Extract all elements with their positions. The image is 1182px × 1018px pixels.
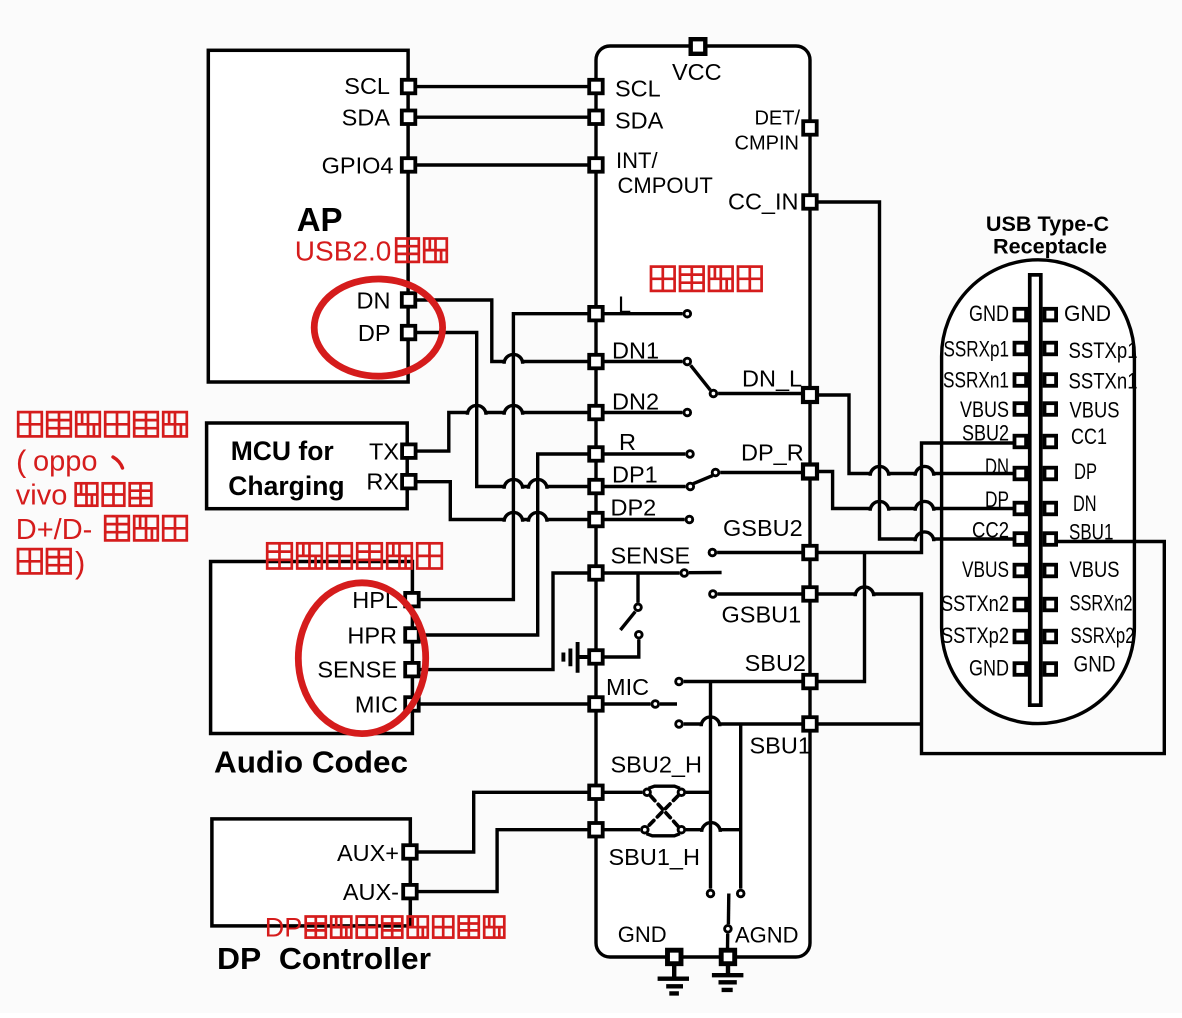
contact AGND switch left bbox=[707, 890, 714, 897]
wire SCL AP to U1 bbox=[409, 85, 596, 88]
contact DN2 bbox=[684, 409, 691, 416]
AP block bbox=[208, 50, 408, 382]
wire CC_IN to CC2 pad bbox=[810, 202, 1014, 541]
svg-text:DP: DP bbox=[265, 913, 303, 943]
svg-text:SSTXp2: SSTXp2 bbox=[941, 623, 1009, 648]
contact DP1 bbox=[687, 483, 694, 490]
pin AGND U1 bbox=[721, 950, 735, 964]
pin VCC U1 bbox=[691, 39, 706, 54]
wire DP1 pin to contact bbox=[596, 485, 686, 488]
svg-text:RX: RX bbox=[366, 469, 399, 495]
svg-text:DN1: DN1 bbox=[612, 338, 659, 364]
pin DP2 U1 bbox=[589, 513, 603, 527]
svg-text:R: R bbox=[619, 429, 636, 455]
svg-text:DN_L: DN_L bbox=[742, 366, 802, 392]
svg-text:DP: DP bbox=[358, 320, 391, 346]
svg-text:SSRXn1: SSRXn1 bbox=[943, 368, 1009, 393]
ground bias symbol bbox=[563, 642, 589, 673]
pin L U1 bbox=[589, 307, 603, 321]
ground symbol AGND bbox=[712, 964, 744, 990]
svg-text:GND: GND bbox=[969, 656, 1009, 681]
pin SDA AP bbox=[402, 111, 416, 125]
pad right CC1 (5R) bbox=[1045, 436, 1057, 448]
switch blade DP_R to DP1 bbox=[693, 476, 712, 484]
contact GSBU2 bbox=[709, 549, 716, 556]
pin SBU2 U1 bbox=[803, 675, 817, 689]
svg-text:Charging: Charging bbox=[228, 471, 344, 501]
svg-text:SBU2: SBU2 bbox=[745, 650, 806, 676]
svg-text:L: L bbox=[618, 292, 631, 318]
pin DP_R U1 bbox=[803, 465, 817, 479]
red note line1 chongdian xieyi xindao bbox=[18, 412, 187, 436]
svg-text:VBUS: VBUS bbox=[1070, 557, 1120, 582]
svg-text:SSRXp1: SSRXp1 bbox=[944, 337, 1010, 362]
wire SBU1_H contact to drop bbox=[686, 823, 741, 832]
pin DP1 U1 bbox=[589, 480, 603, 494]
pin HPL codec bbox=[405, 593, 419, 607]
svg-text:AUX-: AUX- bbox=[343, 879, 399, 905]
pad right SSTXp1 (2R) bbox=[1045, 343, 1057, 355]
svg-text:Receptacle: Receptacle bbox=[993, 234, 1107, 259]
pad right SSRXn2 (10R) bbox=[1045, 599, 1057, 611]
receptacle tongue bbox=[1030, 275, 1041, 705]
pin CC_IN U1 bbox=[803, 195, 817, 209]
contact ground switch top bbox=[635, 604, 642, 611]
wire AGND common to pin bbox=[726, 934, 730, 951]
svg-text:VBUS: VBUS bbox=[1070, 398, 1120, 423]
contact DN_L common bbox=[710, 390, 717, 397]
svg-text:DN2: DN2 bbox=[612, 389, 659, 415]
svg-text:CMPOUT: CMPOUT bbox=[618, 173, 713, 198]
wire SBU2_H contact to drop bbox=[686, 791, 711, 794]
wire GSBU2 to SBU2 pad bbox=[810, 443, 1014, 553]
ground symbol GND bbox=[658, 964, 689, 993]
svg-text:INT/: INT/ bbox=[616, 148, 658, 173]
pad left VBUS (9L) bbox=[1015, 565, 1027, 577]
wire AUX- to SBU1_H bbox=[410, 830, 596, 892]
crossbar dashed X bbox=[648, 796, 678, 826]
pin INT/CMPOUT U1 bbox=[589, 158, 603, 172]
Audio Codec block bbox=[211, 562, 413, 734]
red ellipse around headphone pins bbox=[298, 583, 425, 734]
svg-text:Audio Codec: Audio Codec bbox=[214, 746, 408, 780]
pin AUX- DP controller bbox=[403, 885, 417, 899]
contact DP_R common bbox=[712, 469, 719, 476]
contact R bbox=[687, 451, 694, 458]
svg-text:CC_IN: CC_IN bbox=[728, 189, 799, 215]
pin HPR codec bbox=[405, 628, 419, 642]
pin SCL AP bbox=[402, 80, 416, 94]
pin RX MCU bbox=[402, 475, 416, 489]
svg-text:SBU2_H: SBU2_H bbox=[611, 752, 702, 778]
wire DN_L to DN pad bbox=[810, 395, 1014, 476]
pin TX MCU bbox=[402, 444, 416, 458]
wire SBU2_H pin to contact bbox=[596, 791, 642, 794]
svg-text:CC1: CC1 bbox=[1071, 424, 1107, 449]
pad left SSRXp1 (2L) bbox=[1015, 343, 1027, 355]
contact SENSE common bbox=[681, 570, 688, 577]
wire SENSE codec to U1 bbox=[412, 573, 596, 670]
pin DN2 U1 bbox=[589, 406, 603, 420]
wire R pin to contact bbox=[596, 452, 685, 455]
wire GPIO4 to INT/CMPOUT bbox=[409, 163, 596, 166]
svg-text:SSTXn1: SSTXn1 bbox=[1069, 369, 1138, 394]
wire DP_R to DP pad bbox=[810, 472, 1014, 511]
svg-text:SBU1: SBU1 bbox=[750, 733, 811, 759]
red label USB2.0 xindao bbox=[396, 239, 447, 262]
pin MIC codec bbox=[405, 697, 419, 711]
svg-text:GPIO4: GPIO4 bbox=[322, 153, 394, 179]
pad right VBUS (9R) bbox=[1045, 565, 1057, 577]
wire SBU1_H pin to contact bbox=[596, 828, 640, 831]
wire R to HPR bbox=[412, 454, 596, 635]
pin ground bias U1 bbox=[589, 650, 603, 664]
svg-text:AP: AP bbox=[297, 201, 343, 238]
contact DP2 bbox=[686, 516, 693, 523]
svg-text:D+/D-: D+/D- bbox=[16, 514, 93, 546]
pad left SSRXn1 (3L) bbox=[1015, 374, 1027, 386]
wire SBU1 contact to pin bbox=[684, 717, 802, 726]
svg-text:GSBU1: GSBU1 bbox=[722, 602, 802, 628]
contact SBU2 bbox=[676, 678, 683, 685]
svg-text:AUX+: AUX+ bbox=[337, 840, 399, 866]
wire AUX+ to SBU2_H bbox=[410, 792, 596, 852]
contact GSBU1 bbox=[710, 591, 717, 598]
switch blade SENSE bbox=[689, 571, 722, 575]
pad right VBUS (4R) bbox=[1045, 403, 1057, 415]
svg-text:SCL: SCL bbox=[615, 76, 661, 102]
wire DP AP to DP1 bbox=[409, 333, 596, 489]
contact L bbox=[684, 310, 691, 317]
wire GSBU1 to loop bbox=[810, 542, 1164, 754]
pin SBU1_H U1 bbox=[589, 823, 603, 837]
contact SBU1_H left bbox=[642, 826, 649, 833]
pin GSBU2 U1 bbox=[803, 546, 817, 560]
switch blade ground bbox=[620, 612, 635, 630]
wire L to HPL bbox=[412, 314, 596, 600]
pad right SSTXn1 (3R) bbox=[1045, 374, 1057, 386]
red note line2 dun mark bbox=[113, 457, 123, 468]
svg-text:SBU2: SBU2 bbox=[962, 421, 1009, 446]
pin SCL U1 bbox=[589, 80, 603, 94]
wire DP_R common bbox=[720, 471, 802, 474]
wire L pin to contact bbox=[596, 312, 683, 315]
red ellipse around DN/DP bbox=[314, 279, 442, 376]
wire DP2 pin to contact bbox=[596, 518, 685, 521]
svg-text:GND: GND bbox=[1064, 301, 1111, 326]
pad left GND (12L) bbox=[1015, 663, 1027, 675]
svg-text:VBUS: VBUS bbox=[960, 397, 1009, 422]
contact AGND common bbox=[725, 926, 732, 933]
wire SENSE to ground switch bbox=[636, 573, 639, 603]
switch blade AGND bbox=[727, 894, 731, 925]
svg-text:DET/: DET/ bbox=[754, 108, 800, 130]
svg-text:DN: DN bbox=[357, 288, 391, 314]
contact DN1 bbox=[684, 358, 691, 365]
pin SDA U1 bbox=[589, 111, 603, 125]
pad right DN (7R) bbox=[1045, 503, 1057, 515]
svg-text:SENSE: SENSE bbox=[317, 657, 397, 683]
svg-text:SDA: SDA bbox=[615, 108, 664, 134]
svg-text:DP1: DP1 bbox=[612, 462, 658, 488]
wire SBU2 contact to pin bbox=[684, 680, 802, 683]
analog switch IC U1 body bbox=[596, 46, 810, 957]
svg-text:GND: GND bbox=[969, 301, 1009, 326]
svg-text:GND: GND bbox=[1074, 652, 1116, 677]
pad right SSRXp2 (11R) bbox=[1045, 631, 1057, 643]
DP Controller block bbox=[212, 819, 410, 926]
svg-text:SBU1_H: SBU1_H bbox=[609, 844, 700, 870]
pad left SBU2 (5L) bbox=[1015, 436, 1027, 448]
svg-text:): ) bbox=[75, 545, 85, 580]
pin SBU2_H U1 bbox=[589, 786, 603, 800]
wire DN AP to DN1 bbox=[409, 300, 596, 364]
wire DN1 pin to contact bbox=[596, 360, 683, 363]
svg-text:DP: DP bbox=[985, 487, 1009, 512]
svg-text:USB Type-C: USB Type-C bbox=[986, 211, 1109, 236]
wire TX to DN2 bbox=[409, 405, 596, 451]
wire MIC pin to contact bbox=[596, 702, 651, 705]
red label moni erji xindao (headphone channel) bbox=[267, 543, 442, 568]
svg-text:CMPIN: CMPIN bbox=[735, 133, 799, 155]
pad left SSTXp2 (11L) bbox=[1015, 631, 1027, 643]
svg-text:DP2: DP2 bbox=[611, 495, 657, 521]
svg-text:DN: DN bbox=[1073, 491, 1097, 516]
svg-text:oppo: oppo bbox=[33, 446, 98, 478]
MCU for Charging block bbox=[207, 423, 408, 509]
svg-text:SDA: SDA bbox=[342, 105, 391, 131]
svg-text:VCC: VCC bbox=[672, 59, 722, 85]
pad right GND (1R) bbox=[1045, 309, 1057, 321]
pad left DN (6L) bbox=[1015, 468, 1027, 480]
pin GSBU1 U1 bbox=[803, 587, 817, 601]
pin DN_L U1 bbox=[803, 388, 817, 402]
crossbar bottom bridge bbox=[646, 834, 680, 836]
pad left GND (1L) bbox=[1015, 309, 1027, 321]
wire DN_L common bbox=[718, 392, 802, 395]
pin SBU1 U1 bbox=[803, 717, 817, 731]
USB Type-C receptacle body bbox=[942, 260, 1135, 724]
svg-text:SCL: SCL bbox=[344, 73, 390, 99]
red note line4 pao tongxin bbox=[105, 516, 187, 540]
red note line5 xieyi bbox=[18, 549, 71, 573]
pin GND U1 bbox=[668, 950, 682, 964]
contact AGND switch right bbox=[737, 890, 744, 897]
pad right GND (12R) bbox=[1045, 663, 1057, 675]
pin DN AP bbox=[402, 293, 416, 307]
svg-text:VBUS: VBUS bbox=[962, 557, 1009, 582]
wire SDA AP to U1 bbox=[409, 115, 596, 118]
contact ground switch bottom bbox=[636, 631, 643, 638]
switch blade DN_L to DN1 bbox=[691, 365, 711, 390]
pin GPIO4 AP bbox=[402, 158, 416, 172]
red note line3 deng shiyong bbox=[76, 483, 152, 505]
pad left VBUS (4L) bbox=[1015, 403, 1027, 415]
svg-text:MIC: MIC bbox=[606, 674, 649, 700]
svg-text:TX: TX bbox=[369, 439, 399, 465]
svg-text:MIC: MIC bbox=[355, 692, 398, 718]
contact SBU2_H right bbox=[678, 789, 685, 796]
svg-text:GND: GND bbox=[618, 922, 667, 947]
svg-text:SSRXn2: SSRXn2 bbox=[1070, 591, 1133, 616]
svg-text:DP: DP bbox=[1074, 459, 1097, 484]
svg-text:SSTXp1: SSTXp1 bbox=[1069, 338, 1138, 363]
crossbar top bridge bbox=[649, 786, 681, 788]
wire SBU2 net drop bbox=[709, 682, 712, 889]
wire SENSE pin to contact bbox=[596, 571, 680, 574]
wire GSBU2 contact to pin bbox=[717, 551, 802, 554]
pin SENSE U1 bbox=[589, 566, 603, 580]
svg-text:MCU for: MCU for bbox=[231, 436, 334, 466]
pad left CC2 (8L) bbox=[1015, 533, 1027, 545]
pin DP AP bbox=[402, 326, 416, 340]
svg-text:USB2.0: USB2.0 bbox=[295, 236, 392, 267]
svg-text:DN: DN bbox=[985, 454, 1009, 479]
wire MIC codec to U1 bbox=[412, 702, 596, 705]
pin R U1 bbox=[589, 447, 603, 461]
wire DN2 pin to contact bbox=[596, 411, 683, 414]
wire SBU1 pin to loop bbox=[810, 722, 922, 725]
pad right SBU1 (8R) bbox=[1045, 533, 1057, 545]
contact MIC common bbox=[652, 701, 659, 708]
svg-text:GSBU2: GSBU2 bbox=[723, 515, 803, 541]
svg-text:HPR: HPR bbox=[347, 623, 397, 649]
pad left SSTXn2 (10L) bbox=[1015, 599, 1027, 611]
pad left DP (7L) bbox=[1015, 503, 1027, 515]
contact SBU1 bbox=[676, 721, 683, 728]
contact SBU1_H right bbox=[678, 826, 685, 833]
svg-text:SBU1: SBU1 bbox=[1069, 520, 1113, 545]
pad right DP (6R) bbox=[1045, 468, 1057, 480]
red label DP touping channel bbox=[306, 917, 505, 938]
wire ground switch to pin bbox=[596, 639, 639, 657]
switch blade MIC bbox=[660, 702, 677, 705]
pin MIC U1 bbox=[589, 697, 603, 711]
svg-text:(: ( bbox=[16, 444, 27, 479]
pin DN1 U1 bbox=[589, 355, 603, 369]
red label moni kaiguan (analog switch) bbox=[651, 267, 762, 291]
svg-text:DP_R: DP_R bbox=[741, 440, 804, 466]
wire RX to DP2 bbox=[409, 482, 596, 522]
pin DET/CMPIN U1 bbox=[803, 121, 817, 135]
svg-text:AGND: AGND bbox=[735, 923, 799, 948]
wire GSBU1 contact to pin bbox=[718, 592, 802, 595]
pin AUX+ DP controller bbox=[403, 845, 417, 859]
svg-text:SENSE: SENSE bbox=[611, 543, 691, 569]
svg-text:SSRXp2: SSRXp2 bbox=[1071, 623, 1135, 648]
wire SBU1 net drop bbox=[739, 724, 742, 889]
svg-text:vivo: vivo bbox=[16, 480, 68, 512]
svg-text:CC2: CC2 bbox=[972, 518, 1009, 543]
svg-text:SSTXn2: SSTXn2 bbox=[941, 591, 1009, 616]
svg-text:DP Controller: DP Controller bbox=[217, 942, 431, 976]
pin SENSE codec bbox=[405, 663, 419, 677]
wire SBU2 riser bbox=[810, 553, 865, 682]
contact SBU2_H left bbox=[644, 789, 651, 796]
